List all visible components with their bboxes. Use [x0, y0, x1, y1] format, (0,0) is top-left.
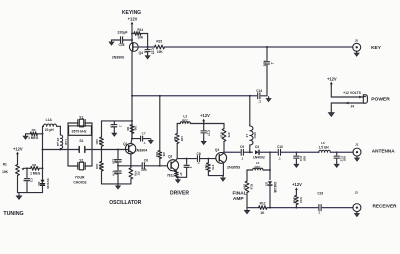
svg-text:R16: R16 — [250, 184, 254, 190]
wire +12V to R1 — [17, 155, 19, 164]
svg-text:TUNING: TUNING — [3, 211, 23, 217]
wire Q1 emitter — [130, 153, 132, 166]
node: C15 tap — [147, 46, 149, 48]
resistor R12b 270 (Q3 base shunt) — [207, 159, 209, 163]
svg-text:R6: R6 — [126, 127, 130, 131]
jack J2 RECEIVER — [353, 204, 361, 212]
inductor L3 RFC — [250, 126, 253, 145]
resistor R12 1K — [259, 206, 267, 210]
node: L5 tap — [269, 169, 271, 171]
transistor Q2 2N2222 — [167, 160, 178, 171]
svg-text:C3: C3 — [109, 124, 113, 128]
svg-text:C16: C16 — [118, 43, 124, 47]
wire Q2 collector up — [175, 159, 177, 161]
svg-text:10K: 10K — [2, 170, 9, 174]
node: receiver tap — [269, 151, 271, 153]
capacitor C8 .1 (driver bypass) — [203, 124, 205, 130]
resistor R13 4.7K — [295, 192, 297, 196]
capacitor C6 100 (output coupling) — [141, 163, 143, 169]
svg-text:ANTENNA: ANTENNA — [372, 149, 396, 154]
crystal Y2 your choice — [68, 165, 78, 167]
svg-text:1N4002: 1N4002 — [253, 155, 265, 159]
svg-text:MV2109: MV2109 — [46, 178, 50, 189]
svg-text:7811: 7811 — [167, 173, 174, 177]
svg-text:R2: R2 — [32, 163, 36, 167]
node: +12V tap — [203, 123, 205, 125]
svg-text:L1A: L1A — [46, 118, 53, 122]
box label 3579 kHz — [69, 126, 92, 135]
svg-text:OSCILLATOR: OSCILLATOR — [109, 200, 141, 206]
svg-text:J5: J5 — [355, 38, 359, 42]
resistor R9 100 (driver collector) — [175, 134, 179, 144]
svg-text:C14: C14 — [256, 89, 262, 93]
svg-text:.1: .1 — [119, 125, 123, 128]
node: R13 to line — [295, 207, 297, 209]
svg-text:AMP: AMP — [233, 196, 244, 202]
wire Q3 collector — [222, 152, 224, 153]
arrow on return lead — [345, 102, 348, 105]
wire R1 to ground line — [17, 176, 19, 193]
svg-text:C9: C9 — [240, 145, 244, 149]
svg-text:Y2: Y2 — [79, 158, 83, 162]
varactor diode D3 MV2109 — [42, 168, 44, 179]
inductor L1B 20uH — [59, 126, 61, 135]
inductor L2 RFC — [180, 122, 190, 124]
resistor R5 10K — [101, 150, 103, 162]
diode D1 1N4002 — [255, 150, 259, 154]
capacitor C5 470 — [117, 166, 119, 170]
rf line wire — [223, 151, 240, 153]
svg-text:C6: C6 — [144, 158, 148, 162]
wire to R10 — [223, 124, 225, 129]
wire receiver drop — [269, 152, 271, 180]
svg-text:.1: .1 — [143, 50, 147, 53]
capacitor C13 .1 — [266, 47, 268, 61]
ground (tuning) — [18, 194, 20, 196]
svg-text:2N3904: 2N3904 — [135, 149, 148, 153]
svg-text:10K: 10K — [155, 152, 159, 158]
svg-text:Q3: Q3 — [215, 148, 219, 152]
svg-text:100: 100 — [141, 168, 147, 172]
ground (filter C left) — [295, 162, 297, 164]
node: filter input — [295, 151, 297, 153]
ground (final) — [222, 176, 224, 178]
wire plug sleeve return — [331, 102, 363, 104]
node: osc top corner — [131, 120, 133, 122]
resistor R3 1 MEG — [26, 133, 31, 135]
capacitor C9 .1 (interstage) — [196, 156, 198, 162]
capacitor C10 .1 (across driver) — [186, 158, 188, 160]
svg-text:47: 47 — [179, 172, 183, 176]
svg-text:R1: R1 — [3, 162, 7, 166]
ground (C15) — [147, 54, 149, 56]
potentiometer R1 10K — [16, 165, 20, 176]
svg-text:C10: C10 — [277, 145, 283, 149]
capacitor C13b 820 (filter) — [295, 152, 297, 155]
svg-text:R12: R12 — [260, 201, 266, 205]
svg-text:D1: D1 — [255, 145, 259, 149]
resistor R11 47 (Q2 emitter) — [175, 171, 179, 177]
svg-text:C19: C19 — [317, 192, 323, 196]
svg-text:1K: 1K — [260, 211, 265, 215]
key line wire — [138, 46, 148, 48]
node: R14 tap — [131, 33, 133, 35]
svg-text:RFC: RFC — [253, 132, 257, 139]
wire rail to L3 — [249, 96, 251, 126]
resistor R7 470 (osc emitter) — [130, 166, 132, 168]
svg-text:Q2: Q2 — [168, 155, 172, 159]
svg-text:3579 kHz: 3579 kHz — [72, 130, 87, 134]
node: Q3 base — [207, 158, 209, 160]
capacitor C3 .1 (osc bypass) — [113, 121, 115, 125]
ground (C7) — [150, 139, 152, 141]
wire osc top feed — [131, 96, 133, 139]
svg-text:RFC: RFC — [255, 165, 262, 169]
node: D2 to line — [269, 207, 271, 209]
svg-text:+12V: +12V — [13, 147, 23, 152]
svg-text:1 MEG: 1 MEG — [30, 172, 41, 176]
capacitor C11 .1 — [240, 149, 242, 155]
wire to Q3 base — [208, 158, 215, 160]
svg-text:.1: .1 — [318, 210, 321, 214]
node: R4/R5 base — [101, 149, 103, 151]
svg-text:KEYING: KEYING — [122, 10, 141, 16]
svg-text:RFC: RFC — [182, 119, 189, 123]
node: R3/L1A junction — [42, 133, 44, 135]
node: C13 drop — [266, 46, 268, 48]
svg-text:POWER: POWER — [371, 96, 390, 102]
inductor L5 RFC — [263, 169, 270, 171]
transistor Q4 2N3906 — [129, 43, 138, 52]
ground (C13/C14 common) — [268, 97, 270, 99]
svg-text:C15: C15 — [151, 48, 155, 54]
svg-text:220µF: 220µF — [117, 30, 128, 34]
svg-text:L1B: L1B — [64, 139, 68, 146]
svg-text:C8: C8 — [197, 152, 201, 156]
svg-text:Q1: Q1 — [123, 142, 127, 146]
jack J1 ANTENNA — [353, 148, 361, 156]
svg-text:R7: R7 — [137, 171, 141, 175]
capacitor C16 220uF — [123, 39, 132, 41]
wire tuning to crystal network — [43, 149, 69, 151]
wire osc top rail left — [102, 120, 133, 122]
svg-text:10K: 10K — [137, 35, 144, 39]
svg-text:R13: R13 — [299, 197, 303, 203]
svg-text:2N3906: 2N3906 — [112, 55, 125, 59]
svg-text:L3: L3 — [245, 134, 249, 138]
resistor R6 100 (osc collector) — [130, 125, 134, 134]
wire to J1 — [337, 151, 353, 153]
inductor L6 1.5 uH — [296, 151, 318, 153]
final ground line — [208, 175, 223, 177]
svg-text:.1: .1 — [189, 166, 193, 169]
resistor R10 270 (final feed) — [222, 129, 226, 142]
svg-text:820: 820 — [343, 156, 347, 161]
svg-text:2N3053: 2N3053 — [227, 166, 240, 170]
svg-text:L6: L6 — [321, 141, 325, 145]
svg-text:820: 820 — [302, 156, 306, 161]
svg-text:.1: .1 — [197, 161, 200, 165]
node: L3 feed — [249, 151, 251, 153]
wire emitter node line — [118, 165, 141, 167]
capacitor C19 .1 — [318, 205, 320, 211]
svg-text:R14: R14 — [137, 28, 143, 32]
node: L3 tap — [249, 95, 251, 97]
svg-text:S1: S1 — [79, 139, 83, 143]
wire crystal left rail — [67, 123, 69, 166]
ground (oscillator) — [117, 184, 119, 186]
svg-text:.1: .1 — [270, 62, 274, 65]
resistor R8 10K (driver bias) — [158, 151, 162, 159]
svg-text:20 µH: 20 µH — [56, 138, 60, 146]
resistor R15 10K — [148, 46, 155, 48]
capacitor C2 .1 — [26, 168, 28, 177]
node: emitter tap line — [117, 165, 119, 167]
svg-text:R9: R9 — [173, 137, 177, 141]
svg-text:R15: R15 — [156, 40, 162, 44]
node: rail at spine — [131, 95, 133, 97]
ground (filter C right) — [336, 162, 338, 164]
wire key line to J5 — [165, 46, 353, 48]
node: varactor net — [42, 167, 44, 169]
wire Q2 emitter — [175, 170, 176, 171]
capacitor C15 .1 (key shaping) — [147, 47, 149, 49]
node: C4 tap — [117, 149, 119, 151]
svg-text:100: 100 — [133, 125, 137, 130]
svg-text:D2: D2 — [265, 182, 269, 186]
svg-text:4.7K: 4.7K — [292, 197, 296, 204]
resistor R16 10K — [246, 170, 248, 181]
transistor Q3 2N3053 — [216, 153, 227, 164]
node: collector bypass tap — [131, 138, 133, 140]
ground (C16) — [111, 40, 113, 42]
node: C16 tap — [131, 39, 133, 41]
ground (receiver line left) — [246, 208, 248, 210]
svg-text:C13: C13 — [262, 61, 266, 67]
wire R10 to Q3 collector — [223, 142, 225, 153]
wire rail to R8 — [159, 96, 161, 151]
svg-text:C4: C4 — [114, 159, 118, 163]
svg-text:FINAL: FINAL — [232, 191, 246, 197]
svg-text:.1: .1 — [241, 156, 244, 160]
wire to ground — [330, 103, 332, 110]
resistor R4 10K — [100, 137, 104, 146]
svg-text:Y1: Y1 — [79, 115, 83, 119]
wire +12V to Q4 emitter — [131, 25, 133, 43]
svg-text:C7: C7 — [142, 131, 146, 135]
svg-text:+12 VOLTS: +12 VOLTS — [343, 91, 361, 95]
wire osc base line — [92, 149, 129, 151]
svg-text:+12V: +12V — [128, 17, 138, 22]
capacitor C12 .1 — [277, 149, 279, 155]
wire L2 line — [177, 123, 180, 125]
svg-text:CHOICE: CHOICE — [73, 180, 87, 184]
svg-text:DRIVER: DRIVER — [170, 191, 189, 197]
svg-text:+12V: +12V — [292, 182, 302, 187]
ground (driver) — [177, 178, 179, 180]
svg-text:R11: R11 — [204, 164, 208, 170]
resistor R2 1 MEG — [27, 167, 31, 169]
wire to Q2 base — [159, 165, 168, 167]
wire Q3 emitter — [222, 162, 224, 175]
svg-text:J4: J4 — [350, 105, 354, 109]
driver output line wire — [177, 158, 196, 160]
svg-text:270: 270 — [227, 132, 231, 137]
svg-text:C5: C5 — [114, 171, 118, 175]
connector J4 plug body — [363, 95, 367, 103]
svg-text:YOUR: YOUR — [75, 176, 85, 180]
capacitor C14b 820 (filter) — [336, 152, 338, 155]
svg-text:270: 270 — [211, 165, 215, 170]
svg-text:.1: .1 — [278, 156, 281, 160]
svg-text:D3: D3 — [37, 182, 41, 186]
svg-text:1.5 UH: 1.5 UH — [319, 146, 330, 150]
svg-text:100: 100 — [180, 136, 184, 141]
wire R14 to key line — [147, 34, 149, 48]
keyed +12V rail wire — [132, 95, 257, 97]
ground (R3) — [25, 134, 27, 136]
resistor R14 10K — [132, 33, 134, 35]
svg-text:R8: R8 — [162, 152, 166, 156]
svg-text:J1: J1 — [355, 142, 359, 146]
svg-text:+12V: +12V — [200, 113, 210, 118]
svg-text:R3: R3 — [32, 128, 36, 132]
capacitor C14 .1 (rail bypass) — [257, 93, 259, 99]
svg-text:10K: 10K — [243, 184, 247, 190]
svg-text:R10: R10 — [220, 132, 224, 138]
svg-text:20 µH: 20 µH — [45, 128, 54, 132]
svg-text:C2: C2 — [30, 178, 34, 182]
node: L1B to crystal line — [59, 149, 61, 151]
capacitor C4 220 — [117, 150, 119, 159]
arrow on +12V lead — [359, 96, 362, 99]
svg-text:.1: .1 — [23, 179, 27, 182]
ground (J5) — [356, 51, 358, 53]
receiver line wire — [247, 207, 259, 209]
osc ground line wire — [102, 183, 131, 185]
capacitor C7 .1 (collector bypass) — [132, 138, 140, 140]
svg-text:1N4148: 1N4148 — [273, 181, 277, 192]
node: C2 tap — [26, 167, 28, 169]
node: crystal line crossing — [42, 149, 44, 151]
svg-text:+12V: +12V — [327, 77, 337, 82]
node: driver base — [159, 165, 161, 167]
ground (C8) — [203, 139, 205, 141]
svg-text:R5: R5 — [98, 164, 102, 168]
node: filter output — [336, 151, 338, 153]
wire varactor node up to L1A node — [42, 134, 44, 169]
tuning ground line wire — [18, 192, 43, 194]
ground (C3) — [113, 131, 115, 133]
svg-text:10K: 10K — [157, 50, 164, 54]
diode D2 1N4148 — [268, 181, 272, 185]
wire +12V to plug — [330, 85, 332, 97]
ground (J2) — [356, 212, 358, 214]
inductor L1A 20uH — [42, 126, 44, 134]
svg-text:Q4: Q4 — [139, 51, 144, 55]
wire Q4 collector down to rail — [131, 51, 133, 96]
driver emitter ground line — [176, 176, 186, 178]
svg-text:RECEIVER: RECEIVER — [373, 203, 398, 208]
jack J5 KEY — [353, 43, 361, 51]
svg-text:J2: J2 — [355, 190, 359, 194]
svg-text:KEY: KEY — [371, 45, 382, 51]
svg-text:C17: C17 — [207, 130, 211, 136]
ground (J1) — [356, 156, 358, 158]
svg-text:1 MEG: 1 MEG — [28, 136, 39, 140]
svg-text:.1: .1 — [258, 100, 261, 104]
node: driver bias tap — [159, 95, 161, 97]
svg-text:R4: R4 — [98, 140, 102, 144]
ground (power) — [330, 110, 332, 113]
wire crystal right rail — [91, 123, 93, 166]
transistor Q1 2N3904 — [131, 139, 132, 144]
crystal Y1 3579 kHz — [68, 122, 78, 124]
